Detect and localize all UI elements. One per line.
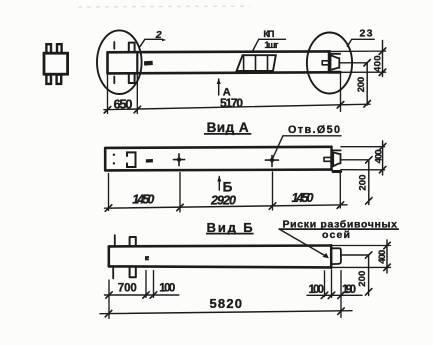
svg-text:Вид А: Вид А [207, 120, 249, 135]
view A 400 dim line [382, 141, 384, 175]
view A target mark 2 (hole) [265, 156, 278, 167]
svg-text:А: А [223, 86, 231, 98]
svg-text:Б: Б [223, 179, 233, 194]
view B left dim extensions [109, 271, 154, 319]
beam top view left end block line [136, 52, 138, 73]
view B tab above [130, 237, 136, 246]
svg-text:700: 700 [118, 283, 137, 295]
dimension 650 extension right [136, 73, 138, 113]
dimension 5820 line [100, 311, 352, 314]
top view 200 ticks [364, 60, 371, 108]
column cross-section square [44, 53, 68, 74]
faint scan artifact top [78, 6, 250, 7]
view B right dim line [307, 294, 362, 296]
view B leader arrow (riski) [279, 229, 327, 257]
view A console trapezoid [333, 152, 340, 166]
svg-text:2: 2 [155, 29, 162, 41]
underline riski [279, 228, 399, 230]
svg-text:400: 400 [377, 250, 388, 264]
cross-section tab top-right [57, 44, 62, 53]
top view mid line to 200 dim [339, 62, 367, 64]
view B left dim ticks [106, 292, 157, 298]
plate KP parallelogram [237, 55, 276, 71]
view B 200 ticks [365, 252, 372, 295]
5170 right extension [340, 74, 342, 112]
top view black mark near left end [144, 61, 153, 66]
top view console outline [330, 53, 340, 55]
view B 200 dim line [368, 255, 370, 296]
view A console tab [324, 157, 331, 161]
beam top view outline [108, 51, 331, 73]
ticks 650/5170 [104, 102, 344, 114]
underline View A [204, 133, 251, 135]
view B right dim extensions [325, 270, 342, 318]
view A right end block [332, 149, 341, 151]
dimension 650 extension left [107, 73, 109, 113]
view B 400 extensions [331, 246, 390, 268]
view A black dash [146, 159, 153, 163]
view A 200 dim line [368, 160, 370, 205]
view B tab below [130, 267, 136, 277]
view B k mark [145, 256, 149, 260]
label 23 leader [347, 39, 374, 46]
view A dim line [105, 205, 348, 208]
svg-text:Отв.Ø50: Отв.Ø50 [288, 124, 340, 136]
top view left tab below [129, 73, 135, 83]
svg-text:200: 200 [356, 77, 367, 93]
view B riska tick above [114, 235, 116, 246]
view A 400 extensions [341, 147, 385, 170]
label KP leader [253, 39, 286, 50]
svg-text:100: 100 [309, 284, 325, 296]
svg-text:1шт: 1шт [264, 40, 278, 51]
hole label leader [273, 136, 341, 159]
top view left tab above [129, 43, 135, 53]
view A 200 ticks [366, 157, 373, 205]
top view 400 ticks [379, 48, 386, 76]
svg-text:КП: КП [263, 29, 274, 40]
top view 400 top extension [330, 50, 386, 52]
underlines [204, 134, 399, 234]
5820 ticks [105, 308, 344, 317]
view A dim ticks [105, 202, 343, 211]
svg-text:200: 200 [357, 271, 368, 287]
cross-section tab bottom-right [57, 75, 62, 84]
svg-text:200: 200 [358, 175, 369, 191]
view A target mark 1 [174, 154, 185, 166]
view B 400 ticks [384, 242, 390, 270]
underline View B [206, 233, 254, 235]
view B right dim ticks [321, 292, 344, 299]
label 2 leader [140, 39, 162, 46]
dimension line 650-5170 [104, 104, 370, 110]
plate KP dividers [244, 55, 268, 71]
svg-text:осей: осей [322, 229, 350, 241]
top view 200 dim line [366, 63, 368, 105]
svg-text:1450: 1450 [292, 191, 314, 205]
svg-text:2920: 2920 [210, 193, 236, 207]
detail ellipse left [97, 30, 142, 94]
view A 400 ticks [379, 143, 386, 173]
view B left dim line [105, 294, 179, 296]
view A dim extensions [109, 172, 341, 213]
view A dots [113, 154, 115, 156]
svg-text:100: 100 [159, 283, 175, 295]
top view riska tick above left [113, 42, 115, 49]
cross-section tab bottom-left [46, 75, 51, 84]
svg-text:1450: 1450 [132, 192, 154, 206]
svg-text:23: 23 [360, 27, 373, 39]
top view right end plate [328, 52, 331, 73]
top view console tab [322, 61, 330, 65]
svg-text:5820: 5820 [210, 296, 243, 311]
svg-text:Вид Б: Вид Б [207, 220, 253, 235]
top view 400 dim line [382, 41, 384, 77]
view B riska tick below [112, 267, 114, 279]
svg-text:400: 400 [373, 56, 384, 73]
view B 400 dim line [386, 240, 388, 273]
section arrow A [218, 79, 220, 95]
top view console trapezoid [330, 55, 339, 70]
top view riska tick below left [113, 76, 115, 83]
svg-text:400: 400 [374, 149, 385, 163]
top view 400 bottom extension [330, 71, 386, 73]
view A beam outline [105, 147, 331, 171]
detail ellipse right [307, 33, 352, 94]
svg-text:190: 190 [342, 284, 356, 296]
svg-text:650: 650 [114, 97, 133, 112]
view B beam outline [109, 246, 331, 268]
section arrow B [218, 177, 220, 191]
view A bracket mark [127, 152, 136, 167]
view B mid line [341, 254, 369, 256]
view A mid line [341, 159, 369, 161]
view B end plate [330, 245, 333, 268]
view B console [332, 248, 341, 264]
cross-section tab top-left [46, 44, 51, 53]
